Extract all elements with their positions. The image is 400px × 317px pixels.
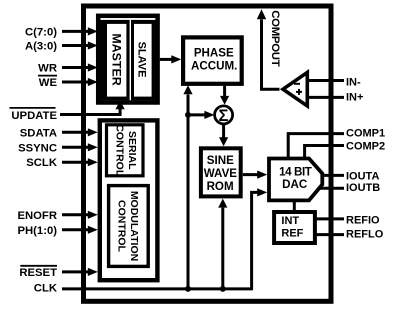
svg-text:SLAVE: SLAVE <box>136 42 148 78</box>
svg-text:Σ: Σ <box>218 107 228 125</box>
svg-text:SCLK: SCLK <box>26 157 58 169</box>
svg-text:RESET: RESET <box>19 267 57 279</box>
svg-text:REF: REF <box>281 227 303 239</box>
svg-text:MODULATION: MODULATION <box>128 191 140 261</box>
svg-text:IOUTA: IOUTA <box>346 170 379 182</box>
svg-text:INT: INT <box>281 215 299 227</box>
svg-text:MASTER: MASTER <box>110 33 124 85</box>
svg-text:WE: WE <box>39 77 58 89</box>
svg-text:A(3:0): A(3:0) <box>25 41 57 53</box>
svg-text:COMP1: COMP1 <box>346 128 385 140</box>
svg-text:COMP2: COMP2 <box>346 140 385 152</box>
svg-text:ROM: ROM <box>207 180 234 193</box>
svg-text:14 BIT: 14 BIT <box>279 165 312 178</box>
svg-text:CONTROL: CONTROL <box>113 124 125 176</box>
svg-text:ENOFR: ENOFR <box>17 210 57 222</box>
svg-text:IN-: IN- <box>346 77 361 89</box>
svg-text:COMPOUT: COMPOUT <box>269 10 281 66</box>
svg-text:SDATA: SDATA <box>20 127 57 139</box>
svg-text:REFLO: REFLO <box>346 229 384 241</box>
svg-text:PH(1:0): PH(1:0) <box>17 225 57 237</box>
svg-text:PHASE: PHASE <box>194 46 234 59</box>
svg-text:DAC: DAC <box>282 178 308 191</box>
svg-text:UPDATE: UPDATE <box>11 110 57 122</box>
svg-text:ACCUM.: ACCUM. <box>191 60 237 73</box>
svg-text:CONTROL: CONTROL <box>116 200 128 252</box>
svg-text:CLK: CLK <box>34 282 58 294</box>
svg-text:IOUTB: IOUTB <box>346 182 380 194</box>
svg-text:WAVE: WAVE <box>204 167 238 180</box>
svg-text:IN+: IN+ <box>346 92 363 104</box>
svg-text:SERIAL: SERIAL <box>126 131 138 170</box>
svg-text:WR: WR <box>38 63 57 75</box>
svg-text:C(7:0): C(7:0) <box>25 26 57 38</box>
svg-text:REFIO: REFIO <box>346 215 380 227</box>
svg-text:SINE: SINE <box>207 154 234 167</box>
svg-text:SSYNC: SSYNC <box>18 142 57 154</box>
